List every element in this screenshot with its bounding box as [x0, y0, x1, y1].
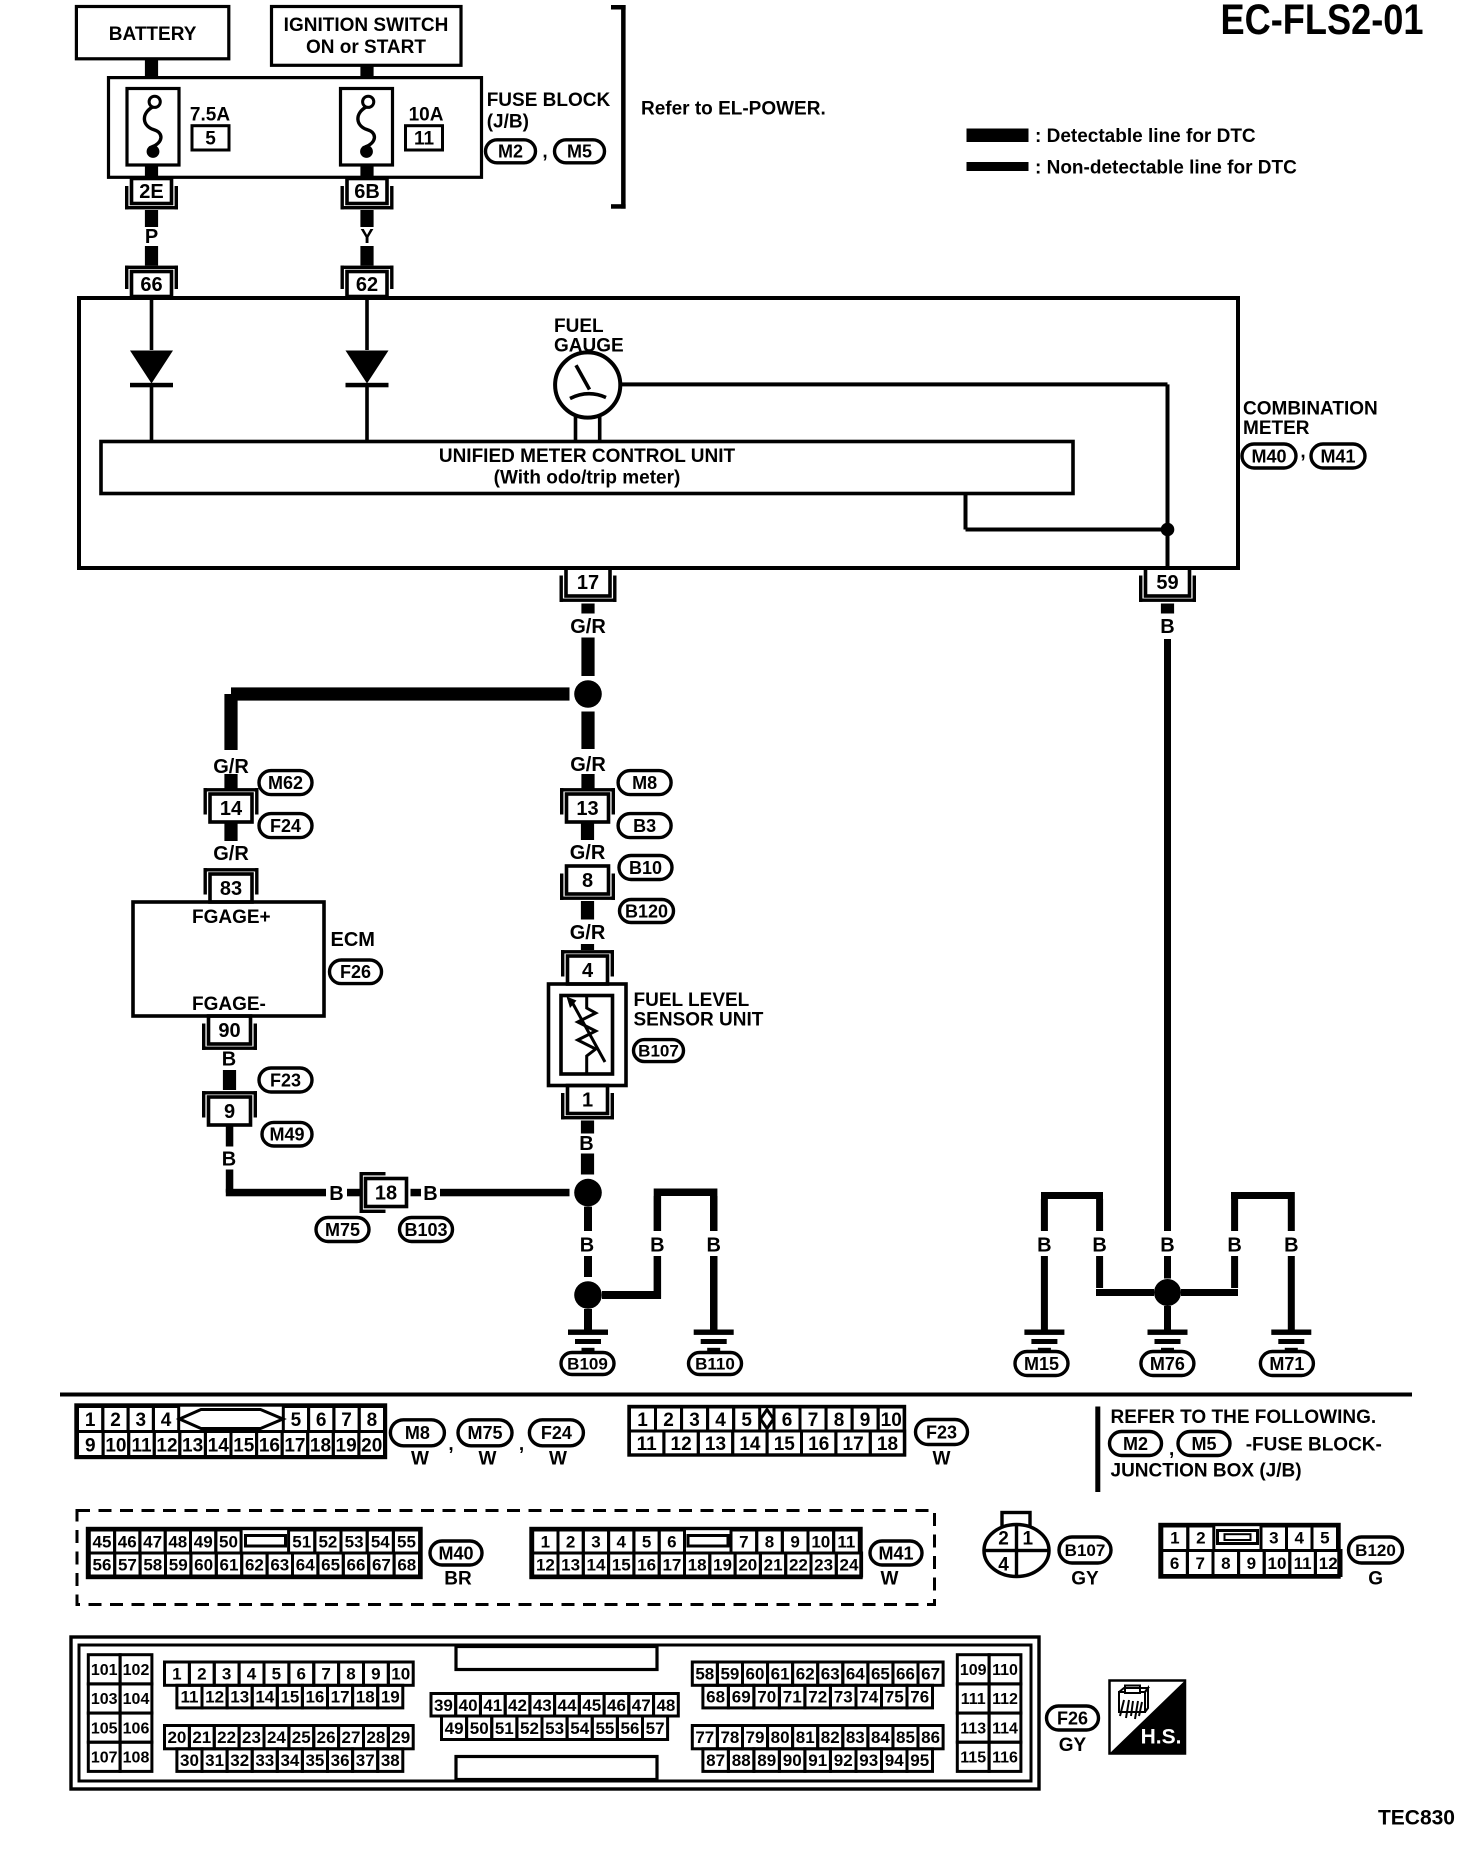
- svg-text:111: 111: [961, 1691, 986, 1708]
- svg-text:8: 8: [367, 1410, 378, 1431]
- svg-text:F23: F23: [926, 1422, 957, 1442]
- svg-text:3: 3: [591, 1533, 600, 1552]
- svg-text:11: 11: [637, 1434, 658, 1455]
- label FGAGE+: [192, 907, 271, 928]
- svg-text:46: 46: [118, 1533, 137, 1552]
- svg-text:53: 53: [545, 1719, 564, 1738]
- svg-text:8: 8: [765, 1533, 774, 1552]
- svg-text:20: 20: [738, 1556, 757, 1575]
- svg-text:12: 12: [205, 1688, 224, 1707]
- svg-text:B109: B109: [567, 1355, 608, 1374]
- svg-text:63: 63: [270, 1556, 289, 1575]
- ignition switch: [272, 7, 462, 66]
- label B m15: [1037, 1235, 1051, 1257]
- connector ref M8 bottom: [390, 1420, 444, 1446]
- svg-text:,: ,: [448, 1434, 453, 1455]
- wire node to 59: [1166, 530, 1170, 567]
- svg-text:58: 58: [695, 1665, 714, 1684]
- svg-text:,: ,: [542, 141, 547, 162]
- svg-text:G: G: [1368, 1568, 1383, 1589]
- svg-text:61: 61: [771, 1665, 790, 1684]
- svg-text:17: 17: [662, 1556, 681, 1575]
- svg-text:57: 57: [118, 1556, 137, 1575]
- svg-text:1: 1: [637, 1410, 648, 1431]
- svg-text:28: 28: [366, 1728, 385, 1747]
- svg-text:FGAGE-: FGAGE-: [192, 994, 266, 1015]
- svg-text:37: 37: [356, 1751, 375, 1770]
- label B between dots: [580, 1235, 594, 1257]
- svg-text:110: 110: [992, 1662, 1018, 1679]
- svg-text:,: ,: [519, 1434, 524, 1455]
- svg-text:M71: M71: [1269, 1354, 1304, 1374]
- svg-text:45: 45: [582, 1696, 601, 1715]
- svg-text:6B: 6B: [354, 181, 380, 203]
- svg-text:BATTERY: BATTERY: [109, 24, 197, 45]
- svg-text:3: 3: [1269, 1529, 1278, 1548]
- label B m71l: [1227, 1235, 1241, 1257]
- svg-text:B: B: [580, 1235, 594, 1257]
- title EC-FLS2-01: [1221, 0, 1424, 44]
- fuel level sensor unit box: [549, 984, 627, 1086]
- wire 13 to 8: [581, 822, 594, 840]
- svg-text:F23: F23: [270, 1070, 301, 1090]
- svg-text:116: 116: [992, 1750, 1018, 1767]
- svg-text:59: 59: [1156, 572, 1178, 594]
- ECM connector bottom tab: [456, 1757, 657, 1780]
- svg-text:53: 53: [345, 1533, 364, 1552]
- pin grid connector M40: [88, 1529, 422, 1578]
- connector 14: [204, 788, 259, 822]
- connector 18: [360, 1172, 407, 1213]
- svg-text:59: 59: [169, 1556, 188, 1575]
- connector ref M8: [618, 771, 671, 795]
- svg-text:71: 71: [783, 1688, 802, 1707]
- svg-text:13: 13: [705, 1434, 726, 1455]
- ground wire network M15/M76/M71: [1041, 1192, 1295, 1330]
- svg-text:92: 92: [834, 1751, 853, 1770]
- wire 8 to 4: [581, 901, 594, 920]
- battery: [76, 7, 228, 59]
- svg-text:GY: GY: [1071, 1568, 1099, 1589]
- svg-text:41: 41: [483, 1696, 502, 1715]
- svg-text:11: 11: [837, 1533, 855, 1552]
- svg-text:M76: M76: [1150, 1354, 1185, 1374]
- svg-text:50: 50: [219, 1533, 238, 1552]
- svg-text:80: 80: [771, 1728, 790, 1747]
- svg-text:7: 7: [341, 1410, 352, 1431]
- svg-text:M5: M5: [1191, 1434, 1216, 1454]
- svg-text:102: 102: [123, 1662, 150, 1679]
- wire 14 to 83: [224, 822, 237, 841]
- svg-text:FUSE BLOCK: FUSE BLOCK: [487, 90, 611, 111]
- svg-text:10: 10: [881, 1410, 902, 1431]
- svg-text:COMBINATION: COMBINATION: [1243, 398, 1378, 419]
- junction dot2 B: [574, 1281, 602, 1309]
- svg-text:3: 3: [222, 1665, 231, 1684]
- svg-text:4: 4: [715, 1410, 726, 1431]
- svg-text:94: 94: [885, 1751, 904, 1770]
- wire stub to 13: [581, 774, 594, 790]
- junction dot3 B: [1154, 1279, 1181, 1306]
- connector ref M15: [1015, 1352, 1068, 1376]
- svg-text:11: 11: [1294, 1554, 1312, 1573]
- svg-text:5: 5: [291, 1410, 302, 1431]
- svg-text:86: 86: [921, 1728, 940, 1747]
- svg-text:109: 109: [960, 1662, 987, 1679]
- svg-text:M5: M5: [567, 142, 592, 162]
- ECM pins 101-108: [88, 1655, 152, 1772]
- svg-text:32: 32: [230, 1751, 249, 1770]
- wire 9 corner to 18: [226, 1170, 326, 1197]
- label B m71: [1284, 1235, 1298, 1257]
- connector ref B3: [618, 814, 671, 838]
- svg-text:60: 60: [746, 1665, 765, 1684]
- svg-text:93: 93: [859, 1751, 878, 1770]
- wire 90 to 9: [223, 1070, 236, 1090]
- connector 13: [560, 788, 615, 822]
- svg-text:78: 78: [720, 1728, 739, 1747]
- svg-text:16: 16: [259, 1435, 280, 1456]
- refer to following block: [1095, 1407, 1376, 1493]
- svg-text:15: 15: [774, 1434, 796, 1455]
- svg-text:67: 67: [372, 1556, 391, 1575]
- svg-text:83: 83: [220, 878, 242, 900]
- svg-text:23: 23: [242, 1728, 261, 1747]
- svg-text:TEC830: TEC830: [1378, 1807, 1455, 1830]
- svg-text:19: 19: [336, 1435, 357, 1456]
- connector 1: [561, 1086, 614, 1120]
- svg-text:B: B: [222, 1149, 236, 1171]
- svg-text:9: 9: [1247, 1554, 1256, 1573]
- svg-text:19: 19: [381, 1688, 400, 1707]
- label B m76l: [1092, 1235, 1106, 1257]
- svg-text:83: 83: [846, 1728, 865, 1747]
- svg-text:B: B: [329, 1183, 343, 1205]
- svg-text:79: 79: [746, 1728, 765, 1747]
- pin grid connector M8 M75 F24: [76, 1405, 386, 1458]
- wire 66 to diode: [150, 297, 154, 351]
- svg-text:F24: F24: [541, 1423, 572, 1443]
- wire to junction: [581, 638, 594, 677]
- svg-text:17: 17: [284, 1435, 305, 1456]
- svg-text:B: B: [650, 1235, 664, 1257]
- svg-text:M41: M41: [878, 1543, 913, 1563]
- svg-text:M40: M40: [1251, 446, 1286, 466]
- connector ref B10: [619, 856, 672, 880]
- svg-text:66: 66: [140, 274, 162, 296]
- svg-text:F26: F26: [1057, 1708, 1088, 1728]
- svg-text:68: 68: [706, 1688, 725, 1707]
- svg-text:B: B: [1227, 1235, 1241, 1257]
- svg-text:ECM: ECM: [331, 929, 375, 951]
- wire battery to fuse block: [145, 59, 158, 78]
- svg-text:12: 12: [1319, 1554, 1338, 1573]
- bracket refer to EL-POWER: [611, 5, 626, 209]
- svg-text:89: 89: [757, 1751, 776, 1770]
- svg-text:ON or START: ON or START: [306, 37, 426, 58]
- connector ref M75 bottom: [458, 1420, 512, 1446]
- svg-text:14: 14: [739, 1434, 761, 1455]
- svg-text:10A: 10A: [409, 104, 444, 125]
- combination meter box: [79, 298, 1238, 568]
- svg-text:16: 16: [305, 1688, 324, 1707]
- svg-text:103: 103: [91, 1691, 118, 1708]
- ECM pins 58-76: [692, 1662, 943, 1708]
- svg-text:35: 35: [305, 1751, 324, 1770]
- wire Y: [360, 210, 373, 266]
- svg-text:M75: M75: [325, 1220, 360, 1240]
- round connector B107: [984, 1513, 1049, 1577]
- svg-text:M15: M15: [1024, 1354, 1059, 1374]
- wire stub to 14: [224, 774, 237, 790]
- fuel gauge: [555, 352, 620, 417]
- svg-text:7: 7: [1195, 1554, 1204, 1573]
- svg-text:108: 108: [123, 1750, 150, 1767]
- svg-text:17: 17: [331, 1688, 350, 1707]
- svg-text:7: 7: [739, 1533, 748, 1552]
- svg-text:5: 5: [642, 1533, 651, 1552]
- svg-text:B110: B110: [695, 1355, 735, 1374]
- svg-text:1: 1: [541, 1533, 550, 1552]
- svg-text:: Detectable line for DTC: : Detectable line for DTC: [1035, 126, 1256, 147]
- svg-text:10: 10: [1268, 1554, 1287, 1573]
- svg-text:15: 15: [280, 1688, 299, 1707]
- fuse 11 10A: [341, 89, 444, 178]
- svg-text:48: 48: [656, 1696, 675, 1715]
- wire 18 to junction: [440, 1189, 570, 1197]
- svg-text:6: 6: [1170, 1554, 1179, 1573]
- pin grid connector F23: [629, 1407, 905, 1456]
- svg-text:M8: M8: [405, 1423, 430, 1443]
- separator line: [60, 1393, 1412, 1397]
- svg-text:M8: M8: [632, 773, 657, 793]
- svg-text:88: 88: [732, 1751, 751, 1770]
- svg-text:40: 40: [459, 1696, 478, 1715]
- svg-text:82: 82: [821, 1728, 840, 1747]
- svg-text:B103: B103: [404, 1220, 447, 1240]
- svg-text:18: 18: [877, 1434, 898, 1455]
- connector ref B109: [561, 1353, 614, 1375]
- wire P: [145, 210, 158, 266]
- wire G/R from 17: [581, 604, 594, 614]
- svg-text:EC-FLS2-01: EC-FLS2-01: [1221, 0, 1424, 44]
- svg-text:85: 85: [896, 1728, 915, 1747]
- svg-text:10: 10: [811, 1533, 830, 1552]
- connector ref F24: [259, 814, 312, 838]
- svg-text:H.S.: H.S.: [1141, 1726, 1182, 1749]
- svg-text:2: 2: [566, 1533, 575, 1552]
- svg-text:23: 23: [814, 1556, 833, 1575]
- diode 2: [346, 351, 389, 388]
- connector ref M5: [555, 140, 605, 163]
- diode 1: [130, 351, 173, 388]
- connector ref B110: [689, 1353, 742, 1375]
- svg-text:90: 90: [218, 1020, 240, 1042]
- svg-text:9: 9: [860, 1410, 871, 1431]
- svg-text:72: 72: [808, 1688, 827, 1707]
- wire dot1 to dot2: [584, 1207, 592, 1277]
- svg-text:50: 50: [470, 1719, 489, 1738]
- svg-text:14: 14: [220, 798, 243, 820]
- svg-text:13: 13: [230, 1688, 249, 1707]
- svg-text:66: 66: [896, 1665, 915, 1684]
- junction dot G/R: [574, 680, 602, 708]
- connector 83: [204, 868, 259, 902]
- ECM box: [133, 902, 324, 1016]
- gauge legs: [574, 417, 602, 442]
- svg-text:24: 24: [840, 1556, 859, 1575]
- svg-text:101: 101: [91, 1662, 118, 1679]
- ECM pins 77-95: [692, 1726, 943, 1772]
- connector ref M2 note: [1110, 1432, 1162, 1456]
- svg-text:G/R: G/R: [570, 754, 606, 776]
- svg-text:18: 18: [688, 1556, 707, 1575]
- svg-text:M62: M62: [268, 773, 303, 793]
- svg-text:106: 106: [123, 1720, 150, 1737]
- svg-text:13: 13: [561, 1556, 580, 1575]
- svg-text:G/R: G/R: [570, 922, 606, 944]
- connector 9: [202, 1091, 257, 1125]
- svg-text:30: 30: [180, 1751, 199, 1770]
- svg-text:55: 55: [397, 1533, 416, 1552]
- svg-text:9: 9: [371, 1665, 380, 1684]
- svg-text:1: 1: [172, 1665, 181, 1684]
- sensor resistor: [567, 996, 606, 1075]
- svg-text:19: 19: [713, 1556, 732, 1575]
- label B 59: [1160, 616, 1174, 638]
- connector ref M49: [262, 1122, 312, 1146]
- fuse block J/B: [109, 78, 482, 178]
- svg-text:GY: GY: [1059, 1735, 1087, 1756]
- svg-text:B: B: [222, 1049, 236, 1071]
- svg-text:54: 54: [371, 1533, 390, 1552]
- svg-text:52: 52: [520, 1719, 539, 1738]
- svg-text:4: 4: [161, 1410, 172, 1431]
- svg-text:Refer to EL-POWER.: Refer to EL-POWER.: [641, 98, 826, 119]
- wire stub to 18: [347, 1189, 360, 1197]
- svg-text:11: 11: [181, 1688, 199, 1707]
- svg-text:(J/B): (J/B): [487, 111, 529, 132]
- svg-text:B: B: [579, 1133, 593, 1155]
- svg-text:,: ,: [1169, 1439, 1174, 1460]
- svg-text:6: 6: [667, 1533, 676, 1552]
- connector 90: [202, 1016, 257, 1050]
- svg-text:15: 15: [233, 1435, 255, 1456]
- connector ref B103: [400, 1218, 453, 1242]
- svg-text:48: 48: [168, 1533, 187, 1552]
- connector 6B: [341, 179, 394, 210]
- svg-text:G/R: G/R: [213, 843, 249, 865]
- svg-text:65: 65: [871, 1665, 890, 1684]
- connector ref F23 bottom: [916, 1420, 968, 1445]
- svg-text:39: 39: [434, 1696, 453, 1715]
- svg-text:34: 34: [280, 1751, 299, 1770]
- svg-text:7.5A: 7.5A: [190, 104, 230, 125]
- svg-text:8: 8: [346, 1665, 355, 1684]
- svg-text:W: W: [411, 1448, 429, 1469]
- svg-text:7: 7: [808, 1410, 819, 1431]
- svg-text:BR: BR: [444, 1568, 472, 1589]
- svg-text:43: 43: [533, 1696, 552, 1715]
- wire junction down: [581, 712, 594, 750]
- connector 2E: [125, 179, 178, 210]
- svg-text:SENSOR UNIT: SENSOR UNIT: [634, 1009, 764, 1030]
- ground M76: [1148, 1330, 1188, 1353]
- svg-text:61: 61: [220, 1556, 239, 1575]
- svg-text:18: 18: [356, 1688, 375, 1707]
- connector ref M76: [1141, 1352, 1194, 1376]
- svg-text:JUNCTION BOX (J/B): JUNCTION BOX (J/B): [1111, 1461, 1302, 1482]
- svg-text:M49: M49: [269, 1125, 304, 1145]
- label G/R mid 2: [570, 842, 606, 864]
- svg-text:17: 17: [577, 572, 599, 594]
- connector 17: [560, 568, 617, 602]
- junction node meter: [1161, 523, 1175, 537]
- svg-text:B: B: [1160, 1235, 1174, 1257]
- svg-text:16: 16: [637, 1556, 656, 1575]
- svg-text:B: B: [423, 1183, 437, 1205]
- svg-text:1: 1: [85, 1410, 96, 1431]
- svg-text:5: 5: [272, 1665, 281, 1684]
- label B after 18: [423, 1183, 437, 1205]
- svg-text:36: 36: [331, 1751, 350, 1770]
- svg-text:15: 15: [612, 1556, 631, 1575]
- svg-text:6: 6: [316, 1410, 327, 1431]
- svg-text:B107: B107: [638, 1042, 679, 1061]
- svg-text:5: 5: [741, 1410, 752, 1431]
- svg-text:1: 1: [582, 1090, 593, 1112]
- ground M15: [1024, 1330, 1064, 1353]
- svg-text:27: 27: [342, 1728, 361, 1747]
- wire gauge to node: [620, 382, 1170, 529]
- svg-text:74: 74: [859, 1688, 878, 1707]
- svg-text:57: 57: [646, 1719, 665, 1738]
- svg-text:B107: B107: [1065, 1541, 1106, 1560]
- wire 62 to diode: [365, 297, 369, 351]
- junction dot1 B: [574, 1179, 602, 1207]
- svg-text:76: 76: [910, 1688, 929, 1707]
- svg-text:2: 2: [663, 1410, 674, 1431]
- svg-text:77: 77: [695, 1728, 714, 1747]
- svg-text:13: 13: [182, 1435, 203, 1456]
- svg-text:18: 18: [375, 1183, 397, 1205]
- ECM pins 109-116: [957, 1655, 1021, 1772]
- svg-text:4: 4: [247, 1665, 257, 1684]
- svg-text:B: B: [706, 1235, 720, 1257]
- svg-text:56: 56: [621, 1719, 640, 1738]
- svg-text:60: 60: [194, 1556, 213, 1575]
- svg-text:26: 26: [317, 1728, 336, 1747]
- svg-text:64: 64: [296, 1556, 315, 1575]
- svg-text:73: 73: [834, 1688, 853, 1707]
- label B before 18: [329, 1183, 343, 1205]
- svg-text:4: 4: [582, 960, 594, 982]
- svg-text:20: 20: [361, 1435, 382, 1456]
- svg-text:107: 107: [91, 1750, 118, 1767]
- svg-text:14: 14: [587, 1556, 606, 1575]
- svg-text:B: B: [1037, 1235, 1051, 1257]
- connector ref B120 bottom: [1349, 1537, 1403, 1563]
- svg-text:13: 13: [576, 798, 598, 820]
- label G/R left: [213, 756, 249, 778]
- svg-text:55: 55: [595, 1719, 614, 1738]
- svg-text:8: 8: [834, 1410, 845, 1431]
- svg-text:51: 51: [495, 1719, 514, 1738]
- unified meter control unit: [101, 442, 1073, 494]
- svg-text:4: 4: [1294, 1529, 1304, 1548]
- fuse 5 7.5A: [127, 89, 230, 178]
- svg-text:70: 70: [757, 1688, 776, 1707]
